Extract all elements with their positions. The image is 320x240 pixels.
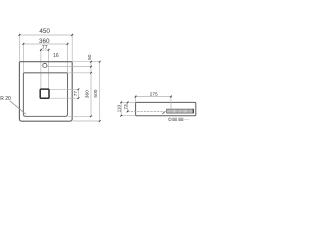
extension line 77 right (48, 48, 50, 89)
weld tick at bracket left (162, 112, 164, 114)
tick 77r bottom (78, 97, 80, 99)
tick 360 top (90, 72, 92, 74)
dimension line 275 (136, 96, 171, 98)
bracket pad 1 stripes (172, 118, 177, 120)
svg-text:360: 360 (84, 90, 90, 98)
svg-text:275: 275 (150, 92, 158, 98)
svg-text:450: 450 (39, 28, 50, 35)
extension line 450 right (71, 33, 73, 61)
extension line 77 left (40, 48, 42, 89)
extension line hole center to 50 dim (47, 66, 91, 68)
extension line drain top right (49, 88, 78, 90)
side view inner bottom line (73 level) (127, 110, 166, 112)
bracket pad 2 stripes (178, 118, 183, 120)
dimension line 360 (23, 43, 67, 45)
dimension line 50+360 vertical (90, 62, 92, 117)
basin bowl outline (23, 73, 67, 117)
tick 275 left (135, 96, 137, 98)
tick 360 left (23, 43, 25, 45)
extension line 360 left (22, 43, 24, 73)
tick 77 left (40, 49, 42, 51)
tick 500 bottom (99, 120, 101, 122)
tick 360 bottom (90, 115, 92, 117)
tick 275 right (170, 96, 172, 98)
extension line bowl bottom right (68, 115, 91, 117)
dimension line 77 vertical right (77, 89, 79, 98)
extension line 450 left (18, 33, 20, 61)
bracket hook below (169, 118, 172, 121)
tick 450 left (19, 34, 21, 36)
tick 110 top (120, 102, 122, 104)
extension line 110 bottom (120, 115, 135, 117)
svg-text:77: 77 (73, 91, 79, 97)
svg-text:50: 50 (87, 54, 93, 60)
dimension line 450 (19, 34, 72, 36)
dimension line 110 (120, 102, 122, 115)
tick 73 bottom (127, 111, 129, 113)
dimension line 500 vertical (99, 62, 101, 121)
extension line 275 right (170, 95, 172, 109)
faucet hole (43, 63, 47, 67)
svg-text:16: 16 (53, 53, 59, 59)
tick 50 top (90, 61, 92, 63)
tick 77 right (48, 49, 50, 51)
svg-text:77: 77 (42, 45, 48, 51)
tick 73 top (127, 102, 129, 104)
drain square (40, 89, 49, 98)
extension line 275 left (135, 95, 137, 102)
extension line top edge right (73, 61, 100, 63)
tick 110 bottom (120, 115, 122, 117)
svg-text:110: 110 (117, 104, 123, 112)
extension line outer bottom right (73, 120, 100, 122)
extension line bowl top right (68, 72, 91, 74)
svg-text:360: 360 (39, 38, 50, 45)
extension line drain bottom right (49, 97, 78, 99)
basin outer outline (19, 62, 72, 121)
tick 77r top (78, 88, 80, 90)
leader R 20 (10, 101, 26, 115)
wall bracket hatched (167, 109, 194, 113)
side view outline (136, 102, 196, 115)
tick 360 right (67, 43, 69, 45)
bracket tail line (184, 118, 190, 120)
extension line 360 right (67, 43, 69, 73)
svg-text:500: 500 (93, 89, 99, 97)
dimension line 77 (41, 49, 49, 51)
dimension line 73 (127, 102, 129, 111)
tick 450 right (71, 34, 73, 36)
tick 500 top (99, 61, 101, 63)
tick 50 bottom (90, 66, 92, 68)
extension line 110 top (120, 101, 135, 103)
wall bracket right cap (193, 109, 194, 113)
svg-text:R 20: R 20 (0, 96, 11, 102)
svg-text:73: 73 (123, 104, 129, 110)
